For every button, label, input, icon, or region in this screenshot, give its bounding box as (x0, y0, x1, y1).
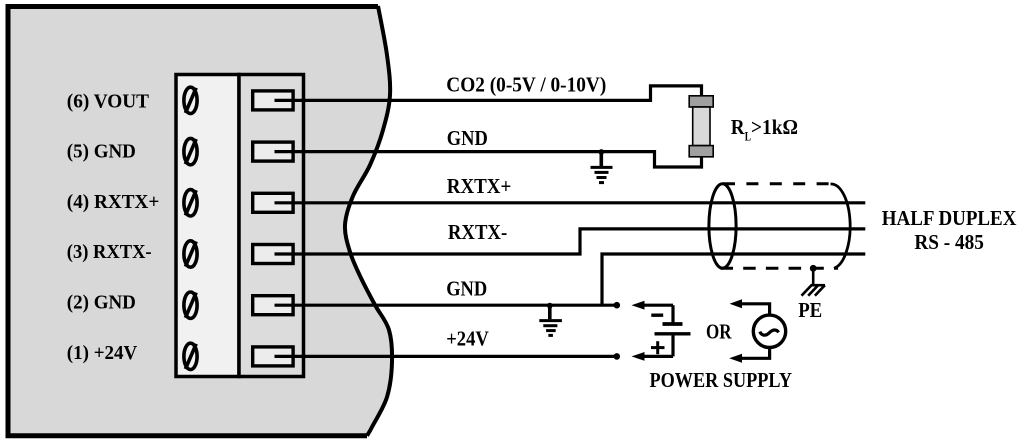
cable shield bottom dashed (721, 267, 839, 270)
resistor RL top cap (689, 96, 713, 107)
AC top lead arrow (741, 304, 770, 315)
screw (4) (184, 190, 197, 216)
battery minus lead (671, 305, 674, 324)
contact 1 (253, 347, 293, 366)
wire GND5 (275, 152, 702, 167)
svg-text:RS - 485: RS - 485 (914, 230, 984, 254)
battery top arrow (643, 304, 673, 307)
svg-text:>1kΩ: >1kΩ (751, 115, 798, 139)
svg-text:(4) RXTX+: (4) RXTX+ (67, 191, 160, 213)
battery short plate (663, 322, 683, 326)
wire RXTX- (275, 229, 866, 254)
resistor RL bottom cap (689, 146, 713, 157)
contact 3 (253, 245, 293, 264)
cable shield left ellipse (709, 184, 736, 268)
battery minus sign (651, 314, 663, 317)
svg-text:GND: GND (446, 277, 487, 301)
node +24V end (614, 353, 621, 360)
battery long plate (655, 332, 691, 335)
battery bottom arrow (643, 355, 673, 358)
svg-text:RXTX-: RXTX- (448, 220, 507, 244)
wire GND2 (275, 304, 617, 307)
terminal block screw column (176, 75, 239, 377)
svg-text:GND: GND (447, 126, 488, 150)
cable shield top dashed (723, 182, 831, 185)
svg-text:PE: PE (798, 298, 822, 322)
svg-text:(2) GND: (2) GND (67, 292, 136, 314)
screw (3) (184, 241, 197, 267)
terminal block contact column (239, 75, 304, 377)
battery plus sign (651, 341, 665, 354)
screw (2) (184, 292, 197, 318)
AC bottom lead arrow (741, 347, 770, 358)
contact 5 (253, 142, 293, 161)
svg-text:CO2 (0-5V / 0-10V): CO2 (0-5V / 0-10V) (446, 73, 606, 97)
device border left/top/bottom (8, 7, 378, 436)
svg-text:(3) RXTX-: (3) RXTX- (67, 241, 152, 263)
wire RXTX+ (275, 201, 866, 204)
resistor RL body (693, 107, 710, 146)
AC sine (760, 330, 779, 335)
wire VOUT/CO2 (275, 86, 702, 101)
svg-text:+24V: +24V (446, 327, 489, 351)
cable shield right arc (831, 184, 851, 268)
PE node dot (810, 265, 817, 272)
wire shield (602, 254, 865, 305)
svg-text:RXTX+: RXTX+ (447, 174, 512, 198)
contact 2 (253, 296, 293, 315)
contact 4 (253, 193, 293, 212)
svg-text:OR: OR (706, 319, 732, 343)
svg-text:HALF DUPLEX: HALF DUPLEX (882, 206, 1017, 230)
screw (1) (184, 343, 197, 369)
battery plus lead (671, 334, 674, 357)
svg-text:POWER SUPPLY: POWER SUPPLY (650, 368, 793, 392)
node GND2 end (614, 302, 621, 309)
ground symbol on GND5 (591, 149, 613, 183)
screw (5) (184, 138, 197, 164)
svg-text:R: R (731, 115, 746, 139)
PE chassis ground (802, 268, 826, 295)
device body (gray enclosure, wavy right edge) (8, 6, 392, 436)
svg-text:(1) +24V: (1) +24V (67, 342, 138, 364)
contact 6 (253, 91, 293, 110)
AC source circle (753, 315, 785, 347)
svg-text:(6) VOUT: (6) VOUT (67, 90, 150, 112)
ground symbol on GND2 (539, 303, 562, 336)
wire +24V (275, 355, 617, 358)
screw (6) (184, 87, 197, 113)
device wavy right border (345, 6, 392, 436)
svg-text:(5) GND: (5) GND (67, 141, 136, 163)
